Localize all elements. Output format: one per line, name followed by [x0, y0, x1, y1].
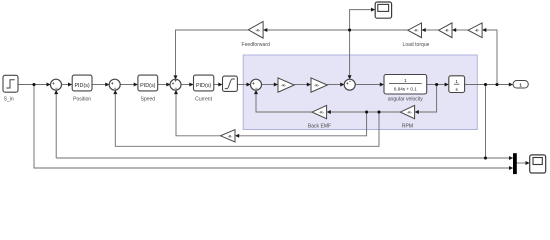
svg-text:-K-: -K-	[255, 28, 260, 32]
sum S5	[344, 78, 355, 90]
arrow into PID Position	[68, 83, 72, 87]
svg-text:−: −	[349, 78, 352, 83]
integrator	[449, 76, 465, 93]
wire integrator to out port	[465, 84, 511, 86]
svg-text:6.94s + 0.1: 6.94s + 0.1	[394, 87, 417, 92]
transfer fcn angular velocity	[384, 75, 427, 103]
wire saturation to sum4	[237, 84, 248, 86]
PID controller Current	[194, 75, 214, 102]
wire PID Speed to sum3	[158, 84, 168, 86]
svg-text:-K-: -K-	[319, 111, 324, 115]
sum S4	[251, 79, 262, 90]
arrow into scope1	[371, 8, 375, 12]
wire output up to load torque chain	[486, 30, 497, 85]
arrow into sum5 left	[340, 83, 344, 87]
arrow into back EMF gain	[327, 110, 331, 114]
wire PID Current to saturation	[214, 84, 220, 86]
gain current feedback	[221, 130, 236, 142]
scope2	[530, 155, 546, 173]
gain RPM	[400, 105, 414, 129]
wire sum1 to PID Position	[61, 84, 69, 86]
motor model shaded area	[243, 55, 477, 130]
arrow into gain LT3	[422, 28, 426, 32]
wire gain LT2 to gain LT3	[425, 29, 438, 31]
arrow into transfer fcn	[380, 83, 384, 87]
arrow into PID Current	[189, 83, 193, 87]
step block S_in	[3, 75, 18, 102]
arrow into gain Km	[307, 83, 311, 87]
mux	[513, 153, 517, 174]
svg-text:-K-: -K-	[407, 111, 412, 115]
svg-text:Back EMF: Back EMF	[308, 124, 331, 130]
svg-text:-K-: -K-	[281, 83, 286, 87]
scope1	[375, 2, 391, 18]
wire reference branch to mux	[34, 85, 510, 169]
gain LT2	[439, 23, 452, 38]
node load torque line	[348, 28, 351, 31]
PID controller Position	[72, 75, 92, 102]
arrow into sum1 bottom	[54, 90, 58, 94]
sum S3	[170, 78, 181, 90]
svg-text:1: 1	[404, 78, 407, 84]
svg-text:-K-: -K-	[475, 29, 480, 33]
svg-text:S_in: S_in	[4, 96, 14, 102]
arrow into current feedback gain	[235, 134, 239, 138]
wire sum5 to transfer fcn	[355, 84, 381, 86]
svg-text:Feedforward: Feedforward	[242, 42, 271, 48]
wire branch up to scope	[350, 10, 372, 30]
gain Feedforward	[242, 22, 271, 49]
arrow into sum3 top	[174, 75, 178, 79]
gain Back EMF	[308, 105, 331, 129]
svg-text:PID(s): PID(s)	[140, 83, 155, 89]
svg-text:Load torque: Load torque	[403, 42, 430, 48]
gain LT1	[468, 23, 482, 38]
PID controller Speed	[138, 75, 158, 102]
arrow into sum2 bottom	[113, 90, 117, 94]
arrow into feedforward gain	[263, 28, 267, 32]
sum S1	[51, 79, 62, 90]
wire step to sum1	[18, 84, 48, 86]
sum S2	[109, 79, 120, 90]
wire transfer fcn to integrator	[427, 84, 446, 86]
wire position feedback to sum1 and mux	[56, 157, 510, 159]
wire mux to scope2	[516, 162, 527, 164]
saturation block	[223, 76, 238, 91]
wire sum4 to gain Ka	[261, 84, 275, 86]
wire feedforward gain to sum3 top	[176, 30, 249, 77]
arrow into gain LT1	[482, 28, 486, 32]
arrow into sum3 left	[166, 83, 170, 87]
svg-text:angular velocity: angular velocity	[388, 97, 424, 103]
wire branch down to sum5 top	[349, 30, 351, 76]
gain LT3 Load torque	[403, 23, 430, 48]
node after step	[32, 83, 35, 86]
wire gain Ka to gain Km	[294, 84, 308, 86]
svg-text:−: −	[114, 86, 117, 91]
gain Km	[311, 78, 327, 92]
svg-text:-K-: -K-	[445, 29, 450, 33]
arrowheads	[47, 8, 530, 170]
svg-text:−: −	[55, 86, 58, 91]
gain Ka	[278, 78, 294, 92]
wire sum3 to PID Current	[181, 84, 191, 86]
svg-text:-K-: -K-	[414, 29, 419, 33]
svg-text:PID(s): PID(s)	[74, 83, 89, 89]
wire output down to feedback line	[485, 85, 487, 159]
node output branch up	[495, 83, 498, 86]
node current feedback tap	[365, 110, 368, 113]
arrow into sum3 bottom	[174, 90, 178, 94]
node output branch down	[484, 83, 487, 86]
wire sum2 to PID Speed	[120, 84, 135, 86]
arrow into sum2	[105, 83, 109, 87]
wire omega down to RPM gain	[418, 85, 436, 113]
svg-text:Current: Current	[195, 97, 212, 103]
wire sum1 bottom vertical	[55, 93, 57, 158]
arrow into sum5 top	[348, 75, 352, 79]
arrow into scope2	[526, 161, 530, 165]
out port 1	[513, 81, 528, 89]
arrow into sum4 bottom	[254, 90, 258, 94]
arrow into mux input 2	[509, 166, 513, 170]
wire gain LT3 to feedforward gain	[267, 29, 408, 31]
svg-text:1: 1	[519, 83, 522, 88]
arrow into sum1	[47, 83, 51, 87]
svg-text:+: +	[174, 78, 177, 83]
arrow into mux input 1	[509, 156, 513, 160]
node RPM line branch	[377, 110, 380, 113]
wire gain LT1 to gain LT2	[456, 29, 468, 31]
arrow into sum4 left	[247, 83, 251, 87]
wire back EMF gain to sum4 bottom	[256, 93, 312, 112]
wire PID Position to sum2	[92, 84, 107, 86]
svg-text:RPM: RPM	[402, 124, 413, 130]
arrow into PID Speed	[134, 83, 138, 87]
svg-text:−: −	[175, 86, 178, 91]
node position feedback	[484, 156, 487, 159]
svg-text:-K-: -K-	[228, 134, 233, 138]
arrow into gain LT2	[452, 28, 456, 32]
wire gain Km to sum5	[327, 84, 341, 86]
arrow into saturation	[218, 83, 222, 87]
wire current feedback gain to sum3 bottom	[176, 93, 221, 136]
wire current feedback branch	[239, 112, 367, 136]
wire RPM gain to back EMF gain	[330, 111, 400, 113]
svg-text:-K-: -K-	[314, 83, 319, 87]
arrow into out port	[509, 83, 513, 87]
wire speed feedback to sum2 bottom	[115, 93, 379, 147]
svg-text:Position: Position	[73, 97, 91, 103]
svg-text:PID(s): PID(s)	[196, 83, 211, 89]
node omega branch	[435, 83, 438, 86]
arrow into RPM gain	[415, 110, 419, 114]
arrow into integrator	[445, 83, 449, 87]
svg-text:−: −	[255, 86, 258, 91]
svg-text:Speed: Speed	[141, 97, 156, 103]
arrow into gain Ka	[274, 83, 278, 87]
